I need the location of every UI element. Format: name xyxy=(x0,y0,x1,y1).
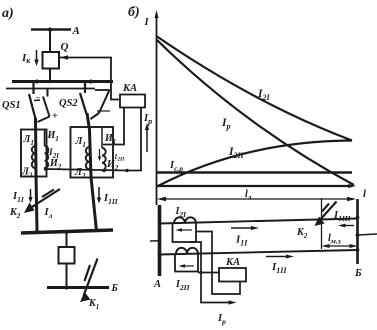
svg-text:l: l xyxy=(363,189,366,200)
svg-text:Q: Q xyxy=(61,41,69,53)
svg-text:КА: КА xyxy=(225,257,240,268)
svg-text:Б: Б xyxy=(111,283,119,294)
svg-text:–: – xyxy=(35,93,40,102)
svg-text:б): б) xyxy=(128,5,140,20)
svg-text:а): а) xyxy=(2,6,14,21)
svg-text:QS1: QS1 xyxy=(2,100,21,111)
svg-text:КА: КА xyxy=(122,83,137,94)
svg-text:А: А xyxy=(153,279,161,290)
svg-text:Б: Б xyxy=(354,268,362,279)
svg-text:+: + xyxy=(52,111,58,122)
svg-text:А: А xyxy=(72,25,80,37)
svg-text:QS2: QS2 xyxy=(59,98,78,109)
